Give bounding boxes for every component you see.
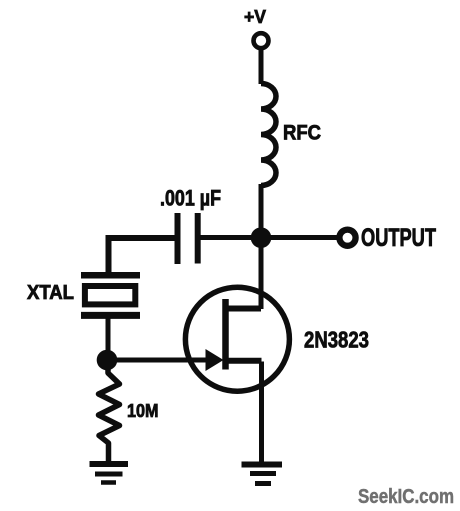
svg-text:.001 µF: .001 µF — [160, 186, 221, 211]
svg-text:SeekIC.com: SeekIC.com — [358, 486, 454, 508]
svg-text:+V: +V — [244, 7, 266, 28]
svg-text:2N3823: 2N3823 — [304, 327, 369, 353]
svg-text:RFC: RFC — [283, 122, 321, 145]
svg-text:10M: 10M — [127, 400, 159, 421]
svg-text:OUTPUT: OUTPUT — [361, 225, 436, 252]
svg-text:XTAL: XTAL — [27, 282, 74, 304]
